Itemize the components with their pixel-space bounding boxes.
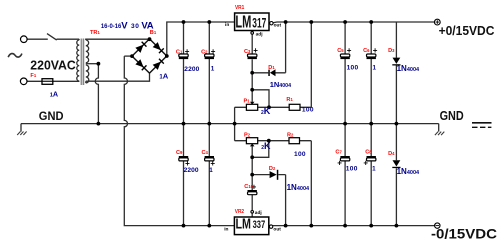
svg-text:-0/15VDC: -0/15VDC bbox=[431, 227, 497, 242]
svg-text:out: out bbox=[274, 23, 282, 29]
svg-text:+: + bbox=[363, 159, 368, 168]
svg-text:16-0-16: 16-0-16 bbox=[101, 23, 122, 30]
svg-text:LM: LM bbox=[236, 215, 252, 232]
svg-text:317: 317 bbox=[252, 15, 266, 31]
svg-text:2200: 2200 bbox=[184, 167, 199, 174]
svg-text:GND: GND bbox=[440, 109, 464, 123]
svg-text:100: 100 bbox=[294, 151, 306, 158]
svg-text:LM: LM bbox=[235, 12, 251, 32]
svg-text:100: 100 bbox=[347, 65, 359, 72]
svg-text:+0/15VDC: +0/15VDC bbox=[439, 23, 495, 38]
svg-text:V: V bbox=[121, 20, 128, 31]
svg-text:adj: adj bbox=[255, 210, 262, 216]
svg-text:out: out bbox=[273, 226, 281, 232]
svg-text:100: 100 bbox=[346, 166, 358, 173]
svg-text:30: 30 bbox=[131, 23, 139, 30]
svg-text:220VAC: 220VAC bbox=[30, 57, 76, 72]
svg-text:+: + bbox=[337, 159, 342, 168]
svg-text:100: 100 bbox=[302, 107, 314, 114]
svg-text:+: + bbox=[211, 47, 216, 56]
svg-text:+: + bbox=[185, 47, 190, 56]
svg-text:+: + bbox=[253, 46, 258, 55]
svg-text:1: 1 bbox=[209, 167, 213, 174]
svg-text:VR2: VR2 bbox=[235, 209, 244, 215]
svg-text:2200: 2200 bbox=[184, 66, 199, 73]
svg-text:in: in bbox=[225, 22, 229, 28]
svg-text:adj: adj bbox=[256, 31, 263, 37]
svg-text:1: 1 bbox=[372, 166, 376, 173]
svg-text:1: 1 bbox=[211, 66, 215, 73]
svg-text:+: + bbox=[347, 46, 352, 55]
svg-text:VA: VA bbox=[141, 20, 153, 31]
svg-text:1: 1 bbox=[373, 65, 377, 72]
svg-text:337: 337 bbox=[253, 219, 266, 231]
svg-text:GND: GND bbox=[39, 109, 64, 123]
svg-text:+: + bbox=[373, 46, 378, 55]
svg-text:in: in bbox=[224, 226, 228, 232]
svg-text:VR1: VR1 bbox=[235, 5, 244, 11]
